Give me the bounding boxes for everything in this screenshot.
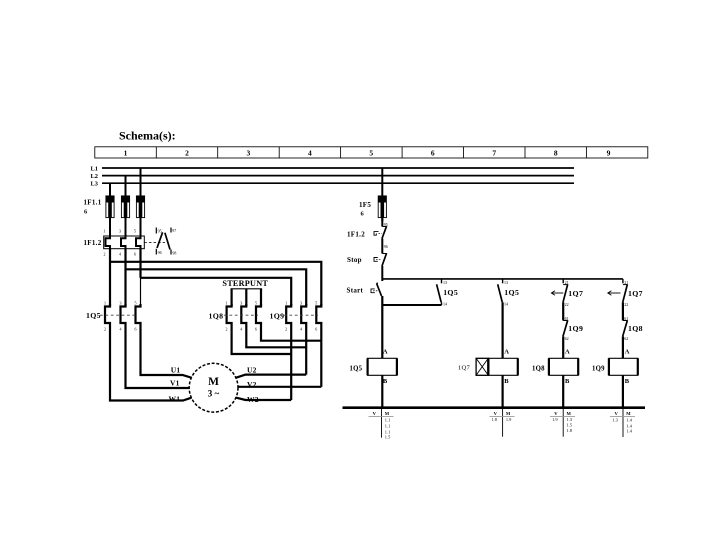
svg-text:2: 2 [226, 327, 228, 332]
svg-text:1.3: 1.3 [612, 417, 618, 422]
svg-text:62: 62 [624, 336, 628, 341]
wire L1 drop to 1F5 [381, 168, 383, 197]
wire L3 [102, 182, 574, 184]
svg-text:2: 2 [104, 252, 106, 257]
label 1F1.2 control [347, 231, 365, 239]
svg-text:1Q5: 1Q5 [443, 288, 458, 297]
svg-text:Start: Start [347, 286, 364, 294]
dashed link overload to aux contacts [144, 241, 165, 243]
pin A coil4 [625, 349, 630, 356]
wire 1Q5 pole2 to V1 [126, 326, 190, 388]
svg-text:8: 8 [554, 149, 558, 158]
svg-text:1Q7: 1Q7 [458, 364, 471, 371]
interlock box X 1Q7 [476, 358, 488, 375]
wire coil1 to bus [381, 375, 383, 407]
label Start [347, 286, 364, 294]
svg-text:3: 3 [300, 301, 302, 306]
svg-text:6: 6 [361, 210, 365, 217]
svg-text:5: 5 [255, 301, 257, 306]
overload relay 1F1.2 box [104, 236, 145, 249]
svg-text:M: M [567, 411, 572, 416]
svg-text:96: 96 [384, 244, 388, 249]
pin 98 [172, 250, 176, 255]
terminal W2 [247, 395, 259, 404]
pin 62 branch4 [624, 336, 628, 341]
label 1Q5 branch2 [504, 288, 519, 297]
wire stop to junction [381, 266, 383, 281]
contactor 1Q5 pole 2 [121, 304, 126, 326]
wire W2 [236, 398, 292, 400]
title Schema(s): [119, 129, 176, 143]
svg-text:B: B [625, 378, 630, 385]
pin 6 [134, 252, 136, 257]
mech link 1Q8 [224, 314, 258, 316]
pin 61 branch3 [565, 316, 569, 321]
svg-text:9: 9 [607, 149, 611, 158]
svg-text:V: V [494, 411, 498, 416]
pin 22 branch3 [565, 302, 569, 307]
label 1Q5 main [86, 311, 101, 320]
svg-text:1Q5: 1Q5 [350, 366, 363, 373]
svg-text:A: A [383, 349, 388, 356]
svg-text:1.3: 1.3 [567, 417, 573, 422]
pin 62 branch3 [565, 336, 569, 341]
cross-reference table coil 1Q5 [369, 409, 394, 439]
label 1Q9 delta [270, 312, 285, 321]
fuse 1F5 [378, 196, 386, 221]
pin 2 [104, 252, 106, 257]
1Q5 pin numbers [104, 301, 137, 332]
stop pushbutton NC [374, 253, 387, 266]
svg-text:1Q9: 1Q9 [592, 366, 605, 373]
branch2 contact 1Q5 NO [498, 279, 503, 302]
pin 61 branch4 [624, 316, 628, 321]
wire 1Q8 pole3 to star join [261, 326, 321, 341]
svg-text:V: V [614, 411, 618, 416]
label 1F1.2 [84, 239, 102, 247]
fuse 1F1.1 pole 2 [121, 196, 129, 221]
wire 1Q9 pole1 to W2 [290, 326, 292, 400]
svg-text:M: M [626, 411, 631, 416]
svg-text:5: 5 [369, 149, 373, 158]
svg-text:14: 14 [443, 302, 447, 307]
label 1Q9 branch3 [568, 324, 583, 333]
wire phase2 overload to 1Q5 pole2 [124, 249, 126, 306]
svg-text:6: 6 [255, 327, 257, 332]
svg-text:4: 4 [308, 149, 312, 158]
svg-text:V1: V1 [170, 378, 180, 387]
wire fuse3 to overload [140, 217, 142, 236]
svg-text:5: 5 [135, 301, 137, 306]
svg-text:2: 2 [285, 327, 287, 332]
control rail CR1 [382, 278, 623, 280]
svg-text:1.8: 1.8 [492, 417, 498, 422]
terminal U1 [171, 366, 181, 375]
svg-text:1.1: 1.1 [385, 424, 391, 429]
pin 1 [104, 229, 106, 234]
label 1Q7 coil [458, 364, 471, 371]
contactor 1Q5 pole 3 [136, 304, 141, 326]
svg-text:21: 21 [565, 280, 569, 285]
svg-text:6: 6 [315, 327, 317, 332]
coil 1Q9 [609, 358, 638, 375]
svg-text:3 ~: 3 ~ [208, 388, 220, 398]
svg-text:3: 3 [240, 301, 242, 306]
svg-text:1Q7: 1Q7 [568, 289, 583, 298]
svg-text:1F1.1: 1F1.1 [84, 199, 102, 207]
wire bus H2 to 1Q9 pole2 [126, 269, 307, 306]
net L2 label [91, 173, 98, 180]
wire L1 [102, 167, 574, 169]
branch4 contact 1Q8 NC [623, 320, 628, 336]
svg-text:5: 5 [315, 301, 317, 306]
wire branch2 to coil 1Q7 [502, 302, 504, 358]
label 6 (1F5 rating) [361, 210, 365, 217]
wire 1F5 to 1F1.2 aux [381, 218, 383, 226]
wire bus H3 to 1Q9 pole1 [141, 278, 292, 306]
wire L3 drop to fuse 1 [109, 183, 111, 196]
pin 96 control [384, 244, 388, 249]
label 1Q8 branch4 [628, 324, 643, 333]
svg-text:98: 98 [172, 250, 176, 255]
svg-text:1: 1 [104, 229, 106, 234]
svg-text:4: 4 [240, 327, 242, 332]
svg-text:V: V [554, 411, 558, 416]
mech link 1Q5 [100, 314, 137, 316]
svg-text:1.4: 1.4 [626, 429, 632, 434]
contactor 1Q8 pole 1 [227, 304, 232, 326]
svg-text:1Q5: 1Q5 [504, 288, 519, 297]
wire fuse1 to overload [109, 217, 111, 236]
branch3 contact 1Q7 NC with arrow [551, 279, 567, 302]
wire coil3 to bus [562, 375, 564, 407]
wire 1Q8 pole1 to star join [232, 326, 292, 354]
svg-text:4: 4 [120, 327, 122, 332]
pin 5 [134, 229, 136, 234]
pin 13 holding [443, 280, 447, 285]
svg-text:13: 13 [443, 280, 447, 285]
pin B coil1 [383, 378, 388, 385]
pin B coil3 [565, 378, 570, 385]
net L3 label [91, 181, 98, 188]
wire branch4 to coil 1Q9 [622, 336, 624, 358]
wire coil4 to bus [622, 375, 624, 407]
wire L2 [102, 175, 574, 177]
net L1 label [91, 166, 98, 173]
svg-text:3: 3 [120, 301, 122, 306]
wire U2 [236, 375, 307, 378]
svg-text:1: 1 [124, 149, 128, 158]
1Q8 pin numbers [226, 301, 258, 332]
svg-text:M: M [506, 411, 511, 416]
svg-text:6: 6 [431, 149, 435, 158]
label 1Q7 branch3 [568, 289, 583, 298]
svg-text:V: V [373, 411, 377, 416]
svg-text:2: 2 [104, 327, 106, 332]
contactor 1Q5 pole 1 [105, 304, 110, 326]
label 1Q9 coil [592, 366, 605, 373]
mech link 1Q9 [284, 314, 318, 316]
svg-text:1Q9: 1Q9 [568, 324, 583, 333]
svg-text:7: 7 [492, 149, 496, 158]
svg-text:L2: L2 [91, 173, 98, 180]
svg-text:1.9: 1.9 [506, 417, 512, 422]
label 1Q5 holding [443, 288, 458, 297]
svg-text:1Q5: 1Q5 [86, 311, 101, 320]
svg-text:A: A [565, 349, 570, 356]
pin 22 branch4 [624, 302, 628, 307]
svg-text:1.1: 1.1 [385, 417, 391, 422]
svg-text:1: 1 [285, 301, 287, 306]
svg-text:1: 1 [226, 301, 228, 306]
svg-text:L1: L1 [91, 166, 98, 173]
pin 96 [158, 250, 162, 255]
contactor 1Q9 pole 2 [301, 304, 306, 326]
column numbers 1-9 [124, 149, 611, 158]
contactor 1Q9 pole 1 [286, 304, 291, 326]
pin B coil2 [504, 378, 509, 385]
svg-text:M: M [385, 411, 390, 416]
svg-text:4: 4 [119, 252, 121, 257]
star point bridge [231, 289, 263, 306]
coil 1Q5 [368, 358, 397, 375]
svg-text:B: B [383, 378, 388, 385]
label 1Q7 branch4 [628, 289, 643, 298]
wire branch3 to coil 1Q8 [562, 336, 564, 358]
thermal release symbol 1F1.2 [374, 232, 382, 236]
pin 14 branch2 [504, 302, 508, 307]
svg-text:M: M [208, 376, 219, 388]
motor M 3~ [189, 363, 238, 412]
pin A coil2 [504, 349, 509, 356]
svg-text:6: 6 [84, 209, 88, 216]
pin 21 branch4 [624, 280, 628, 285]
svg-text:W1: W1 [169, 395, 181, 404]
svg-text:21: 21 [624, 280, 628, 285]
coil 1Q7 [488, 358, 518, 375]
svg-text:95: 95 [158, 228, 162, 233]
wire 1Q5 pole3 to U1 [141, 326, 192, 378]
svg-text:Stop: Stop [347, 256, 362, 264]
label Stop [347, 256, 362, 264]
svg-text:96: 96 [158, 250, 162, 255]
svg-text:1F1.2: 1F1.2 [84, 239, 102, 247]
svg-text:B: B [504, 378, 509, 385]
wire L1 drop to fuse 3 [140, 168, 142, 197]
wire 1Q9 pole2 to U2 [305, 326, 307, 375]
label 1F1.1 [84, 199, 102, 207]
cross-reference table coil 1Q9 [610, 409, 635, 437]
overload aux NO contact 97-98 [165, 228, 171, 255]
pin 95 control [384, 222, 388, 227]
svg-text:V2: V2 [247, 380, 257, 389]
wire phase1 overload to 1Q5 pole1 [109, 249, 111, 306]
label STERPUNT [222, 279, 268, 288]
pin 4 [119, 252, 121, 257]
svg-text:1.8: 1.8 [567, 428, 573, 433]
pin 13 branch2 [504, 280, 508, 285]
branch3 contact 1Q9 NC [563, 320, 568, 336]
svg-text:4: 4 [300, 327, 302, 332]
cross-reference table coil 1Q8 [550, 409, 575, 437]
wire phase3 overload to 1Q5 pole3 [139, 249, 141, 306]
svg-text:1F1.2: 1F1.2 [347, 231, 365, 239]
wire fuse2 to overload [125, 217, 127, 236]
label 6 (1F1.1 rating) [84, 209, 88, 216]
svg-text:B: B [565, 378, 570, 385]
label 1Q8 coil [532, 366, 545, 373]
wire coil2 to bus [502, 375, 504, 407]
svg-text:U1: U1 [171, 366, 181, 375]
pin 95 [158, 228, 162, 233]
svg-text:22: 22 [565, 302, 569, 307]
contactor 1Q8 pole 3 [256, 304, 261, 326]
terminal V2 [247, 380, 257, 389]
svg-text:L3: L3 [91, 181, 98, 188]
wire bus H1 to 1Q9 pole3 [110, 262, 321, 306]
svg-text:U2: U2 [247, 366, 257, 375]
pin 3 [119, 229, 121, 234]
contactor 1Q9 pole 3 [316, 304, 321, 326]
svg-text:Schema(s):: Schema(s): [119, 129, 176, 143]
label 1Q5 coil [350, 366, 363, 373]
svg-text:3: 3 [119, 229, 121, 234]
branch4 contact 1Q7 NC with arrow [608, 279, 628, 302]
svg-text:1.9: 1.9 [552, 417, 558, 422]
svg-text:62: 62 [565, 336, 569, 341]
svg-text:1.4: 1.4 [626, 423, 632, 428]
svg-text:1Q9: 1Q9 [270, 312, 285, 321]
pin 21 branch3 [565, 280, 569, 285]
control rail CR2 holding branch [382, 304, 441, 306]
svg-text:3: 3 [247, 149, 251, 158]
wire start to coil 1Q5 [381, 296, 383, 359]
svg-text:1Q8: 1Q8 [628, 324, 643, 333]
wire 1Q9 pole3 to V2 [320, 326, 322, 387]
1Q9 pin numbers [285, 301, 317, 332]
pin 97 [172, 228, 176, 233]
svg-text:1: 1 [104, 301, 106, 306]
svg-text:A: A [625, 349, 630, 356]
wire 1Q8 pole2 to star join [246, 326, 306, 347]
svg-text:1.4: 1.4 [626, 417, 632, 422]
svg-text:2: 2 [185, 149, 189, 158]
wire L2 drop to fuse 2 [125, 176, 127, 197]
bottom control bus [343, 406, 646, 409]
wire branch3 mid [562, 302, 564, 320]
terminal V1 [170, 378, 180, 387]
svg-text:13: 13 [504, 280, 508, 285]
svg-text:6: 6 [134, 252, 136, 257]
terminal W1 [169, 395, 181, 404]
svg-text:1Q8: 1Q8 [209, 312, 224, 321]
1F1.2 aux NC contact in control [382, 226, 387, 238]
pin A coil1 [383, 349, 388, 356]
svg-text:A: A [504, 349, 509, 356]
overload aux NC contact 95-96 [156, 228, 162, 255]
wire V2 [238, 386, 321, 388]
pin 14 holding [443, 302, 447, 307]
label 1Q8 star [209, 312, 224, 321]
svg-text:6: 6 [135, 327, 137, 332]
fuse 1F1.1 pole 1 [106, 196, 114, 221]
cross-reference table coil 1Q7 [490, 409, 515, 437]
fuse 1F1.1 pole 3 [136, 196, 144, 221]
wire branch4 mid [622, 302, 624, 320]
column ruler strip [95, 147, 648, 158]
contactor 1Q8 pole 2 [241, 304, 246, 326]
svg-text:1.5: 1.5 [385, 434, 391, 439]
svg-text:22: 22 [624, 302, 628, 307]
svg-text:1Q8: 1Q8 [532, 366, 545, 373]
svg-text:14: 14 [504, 302, 508, 307]
wire 1F1.2 aux to stop [381, 239, 383, 254]
svg-text:W2: W2 [247, 395, 259, 404]
svg-text:1Q7: 1Q7 [628, 289, 643, 298]
label 1F5 [359, 201, 371, 209]
holding contact 1Q5 NO [437, 279, 442, 305]
terminal U2 [247, 366, 257, 375]
start pushbutton NO [371, 283, 382, 296]
pin B coil4 [625, 378, 630, 385]
svg-text:1F5: 1F5 [359, 201, 371, 209]
svg-text:5: 5 [134, 229, 136, 234]
svg-text:97: 97 [172, 228, 176, 233]
wire 1Q5 pole1 to W1 [110, 326, 192, 401]
svg-text:STERPUNT: STERPUNT [222, 279, 268, 288]
pin A coil3 [565, 349, 570, 356]
coil 1Q8 [549, 358, 578, 375]
